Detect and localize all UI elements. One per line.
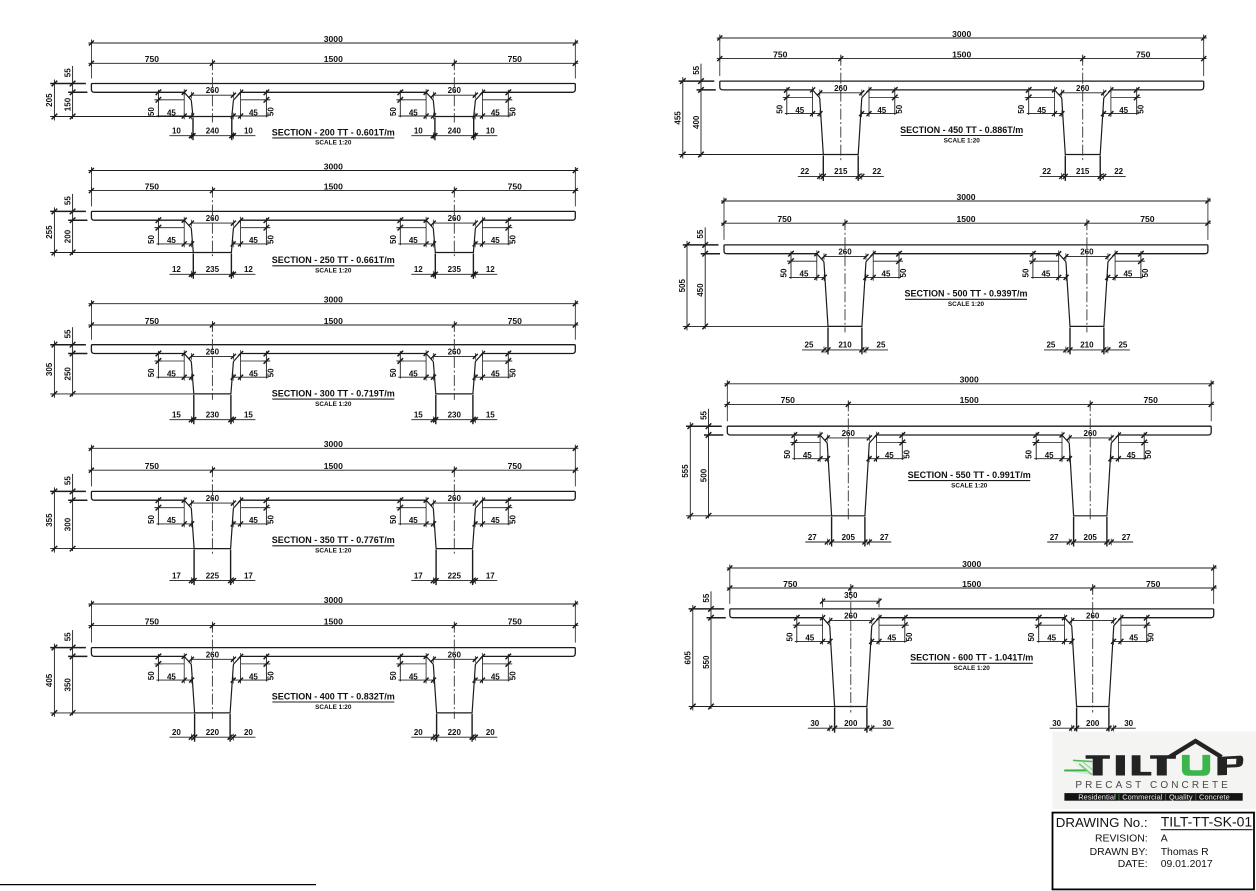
dimension 50 haunch depth (left of left stem, section 600) <box>796 615 798 643</box>
svg-text:750: 750 <box>508 54 523 64</box>
section 200 TT <box>45 34 578 147</box>
dimension 750/1500/750 (section 400) <box>88 625 578 627</box>
svg-text:20: 20 <box>172 728 181 737</box>
svg-text:55: 55 <box>63 196 72 205</box>
svg-text:45: 45 <box>805 634 814 643</box>
dimension 300 stem depth (section 350) <box>70 546 76 552</box>
svg-text:3000: 3000 <box>324 161 343 171</box>
svg-text:50: 50 <box>147 671 156 680</box>
section 250 TT right stem <box>426 220 482 252</box>
dimension 550 stem depth (section 600) <box>708 704 714 710</box>
dimension 3000 (section 250) <box>88 170 578 172</box>
svg-text:20: 20 <box>414 728 423 737</box>
dimension 45 haunch width (right of left stem, section 500) <box>866 276 901 278</box>
svg-text:12: 12 <box>414 265 423 274</box>
section 500 TT title underline <box>905 298 1027 300</box>
svg-text:50: 50 <box>1021 268 1030 277</box>
dimension 50 haunch depth (left of right stem, section 450) <box>1028 87 1030 115</box>
svg-text:45: 45 <box>409 516 418 525</box>
svg-text:260: 260 <box>206 650 220 659</box>
dimension 55 flange thickness (section 450) <box>700 64 702 157</box>
extension line stem bottom to left dims (section 450) <box>679 154 824 156</box>
svg-text:45: 45 <box>409 108 418 117</box>
dimension 45 haunch width (left of right stem, section 250) <box>398 243 433 245</box>
title block border <box>1053 813 1255 890</box>
svg-text:260: 260 <box>1084 429 1098 438</box>
dimension 150 stem depth (section 200) <box>70 114 76 120</box>
extension line flange top (section 500) <box>683 244 719 246</box>
svg-text:50: 50 <box>780 268 789 277</box>
extension line flange top (section 400) <box>50 647 86 649</box>
drawing number underline <box>1161 829 1253 831</box>
svg-text:260: 260 <box>834 84 848 93</box>
dimension 45 haunch width (left of right stem, section 450) <box>1027 113 1062 115</box>
svg-text:3000: 3000 <box>324 595 343 605</box>
svg-text:45: 45 <box>800 270 809 279</box>
svg-text:22: 22 <box>800 167 809 176</box>
dimension 350 chamfer top width (left stem, section 600) <box>823 600 879 602</box>
dimension 260 stem top width (right stem, section 550) <box>1069 437 1111 439</box>
section 200 TT flange outline <box>91 84 575 93</box>
svg-text:45: 45 <box>795 106 804 115</box>
svg-text:25: 25 <box>1118 341 1127 350</box>
dimension 50 haunch depth (right of left stem, section 500) <box>898 251 900 279</box>
svg-text:260: 260 <box>448 86 462 95</box>
svg-text:50: 50 <box>902 449 911 458</box>
section 500 TT right stem <box>1059 254 1115 327</box>
svg-text:50: 50 <box>508 515 517 524</box>
dimension 305 total depth (section 300) <box>53 341 55 398</box>
dimension 50 haunch depth (left of right stem, section 350) <box>399 498 401 526</box>
svg-text:50: 50 <box>1025 449 1034 458</box>
section 400 TT right stem <box>426 656 482 713</box>
section 250 TT right stem centerline <box>453 187 455 259</box>
section 600 TT flange outline <box>730 609 1214 618</box>
section 300 TT right stem <box>426 354 482 394</box>
dimension 45 haunch width (left of right stem, section 550) <box>1034 458 1069 460</box>
svg-text:TILT-TT-SK-01: TILT-TT-SK-01 <box>1161 814 1253 830</box>
svg-text:45: 45 <box>409 672 418 681</box>
extension line flange bottom (section 500) <box>701 253 720 255</box>
svg-text:27: 27 <box>1122 533 1131 542</box>
svg-text:450: 450 <box>696 283 705 297</box>
svg-text:215: 215 <box>834 167 848 176</box>
dimension 260 stem top width (right stem, section 200) <box>433 94 475 96</box>
section 200 TT title underline <box>272 137 394 139</box>
svg-text:45: 45 <box>1119 106 1128 115</box>
extension line flange bottom (section 550) <box>704 434 723 436</box>
svg-text:50: 50 <box>1027 632 1036 641</box>
svg-text:750: 750 <box>1136 49 1151 59</box>
svg-text:1500: 1500 <box>324 54 343 64</box>
extension line flange bottom (section 450) <box>697 89 716 91</box>
dimension 50 haunch depth (left of left stem, section 450) <box>786 87 788 115</box>
svg-text:230: 230 <box>206 411 220 420</box>
svg-text:30: 30 <box>810 719 819 728</box>
svg-text:45: 45 <box>1041 270 1050 279</box>
section 250 TT flange outline <box>91 211 575 220</box>
dimension 20 220 20 bottom width (right stem, section 400) <box>411 736 497 738</box>
svg-text:405: 405 <box>45 673 54 687</box>
section 550 TT left stem centerline <box>847 400 849 521</box>
dimension 45 haunch width (left of right stem, section 200) <box>398 115 433 117</box>
dimension 260 stem top width (left stem, section 550) <box>827 437 869 439</box>
section 300 TT left stem <box>184 354 240 394</box>
logo letter P <box>1217 756 1243 776</box>
svg-text:17: 17 <box>486 571 495 580</box>
dimension 260 stem top width (left stem, section 200) <box>191 94 233 96</box>
svg-text:10: 10 <box>172 127 181 136</box>
section 250 TT left stem centerline <box>211 187 213 259</box>
section 550 TT right stem <box>1062 435 1118 516</box>
dimension 22 215 22 bottom width (right stem, section 450) <box>1040 175 1126 177</box>
svg-text:235: 235 <box>448 265 462 274</box>
dimension 260 stem top width (right stem, section 600) <box>1072 620 1114 622</box>
section 250 TT title underline <box>272 265 394 267</box>
svg-text:22: 22 <box>1042 167 1051 176</box>
svg-text:260: 260 <box>1076 84 1090 93</box>
svg-text:A: A <box>1161 833 1168 844</box>
section 400 TT right stem centerline <box>453 622 455 719</box>
svg-text:230: 230 <box>448 411 462 420</box>
section 450 TT <box>674 29 1207 181</box>
svg-text:50: 50 <box>1137 104 1146 113</box>
dimension 50 haunch depth (right of left stem, section 450) <box>894 87 896 115</box>
dimension 750/1500/750 (section 550) <box>724 403 1214 405</box>
section 450 TT left stem <box>813 90 869 155</box>
logo black banner <box>1064 793 1242 801</box>
svg-text:50: 50 <box>775 104 784 113</box>
svg-text:22: 22 <box>872 167 881 176</box>
svg-text:260: 260 <box>844 612 858 621</box>
dimension 260 stem top width (right stem, section 250) <box>433 222 475 224</box>
svg-text:SECTION - 350 TT - 0.776T/m: SECTION - 350 TT - 0.776T/m <box>272 535 395 545</box>
dimension 50 haunch depth (right of right stem, section 400) <box>507 654 509 682</box>
section 500 TT <box>678 192 1211 355</box>
svg-text:27: 27 <box>1050 533 1059 542</box>
dimension 3000 (section 600) <box>727 567 1217 569</box>
svg-text:505: 505 <box>678 279 687 293</box>
svg-text:10: 10 <box>486 127 495 136</box>
svg-text:50: 50 <box>389 368 398 377</box>
svg-text:Thomas R: Thomas R <box>1161 847 1209 858</box>
dimension 260 stem top width (left stem, section 500) <box>824 256 866 258</box>
dimension 20 220 20 bottom width (left stem, section 400) <box>169 736 255 738</box>
dimension 50 haunch depth (right of left stem, section 550) <box>901 433 903 461</box>
svg-text:1500: 1500 <box>956 214 975 224</box>
dimension 45 haunch width (right of left stem, section 350) <box>233 523 268 525</box>
svg-text:45: 45 <box>249 108 258 117</box>
svg-text:55: 55 <box>63 476 72 485</box>
dimension 260 stem top width (left stem, section 250) <box>191 222 233 224</box>
dimension 45 haunch width (right of left stem, section 300) <box>233 376 268 378</box>
svg-text:15: 15 <box>244 411 253 420</box>
dimension 505 total depth (section 500) <box>686 241 688 331</box>
svg-text:50: 50 <box>266 515 275 524</box>
section 350 TT left stem <box>184 500 240 548</box>
svg-text:750: 750 <box>145 316 160 326</box>
dimension 50 haunch depth (right of right stem, section 250) <box>507 218 509 246</box>
svg-text:50: 50 <box>389 515 398 524</box>
dimension 50 haunch depth (right of left stem, section 250) <box>265 218 267 246</box>
svg-text:455: 455 <box>674 111 683 125</box>
dimension 45 haunch width (left of left stem, section 400) <box>156 679 191 681</box>
dimension 3000 (section 450) <box>717 37 1207 39</box>
svg-text:260: 260 <box>448 214 462 223</box>
svg-text:1500: 1500 <box>324 616 343 626</box>
svg-text:260: 260 <box>206 214 220 223</box>
dimension 250 stem depth (section 300) <box>70 391 76 397</box>
svg-text:50: 50 <box>508 671 517 680</box>
section 600 TT title underline <box>911 662 1033 664</box>
dimension 50 haunch depth (left of right stem, section 600) <box>1038 615 1040 643</box>
section 300 TT right stem centerline <box>453 321 455 400</box>
svg-text:REVISION:: REVISION: <box>1095 833 1148 844</box>
dimension 50 haunch depth (right of right stem, section 450) <box>1136 87 1138 115</box>
svg-text:3000: 3000 <box>962 559 981 569</box>
svg-text:55: 55 <box>696 229 705 238</box>
svg-text:750: 750 <box>145 461 160 471</box>
dimension 260 stem top width (right stem, section 450) <box>1062 92 1104 94</box>
svg-text:1500: 1500 <box>962 579 981 589</box>
dimension 12 235 12 bottom width (right stem, section 250) <box>411 273 497 275</box>
dimension 3000 (section 400) <box>88 603 578 605</box>
dimension 260 stem top width (right stem, section 500) <box>1066 256 1108 258</box>
extension line stem bottom to left dims (section 400) <box>50 712 194 714</box>
svg-text:1500: 1500 <box>952 49 971 59</box>
svg-text:50: 50 <box>899 268 908 277</box>
dimension 50 haunch depth (left of right stem, section 200) <box>399 90 401 118</box>
svg-text:210: 210 <box>1080 341 1094 350</box>
svg-text:300: 300 <box>63 517 72 531</box>
svg-text:750: 750 <box>773 49 788 59</box>
dimension 3000 (section 350) <box>88 447 578 449</box>
svg-text:350: 350 <box>844 591 858 600</box>
dimension 45 haunch width (left of left stem, section 350) <box>156 523 191 525</box>
svg-text:30: 30 <box>882 719 891 728</box>
dimension 55 flange thickness (section 250) <box>72 194 74 255</box>
svg-text:55: 55 <box>63 329 72 338</box>
svg-text:45: 45 <box>167 108 176 117</box>
svg-text:260: 260 <box>206 494 220 503</box>
svg-text:750: 750 <box>783 579 798 589</box>
extension line flange bottom (section 300) <box>68 353 87 355</box>
svg-text:22: 22 <box>1114 167 1123 176</box>
section 200 TT right stem centerline <box>453 59 455 122</box>
dimension 205 total depth (section 200) <box>53 80 55 121</box>
svg-text:500: 500 <box>699 468 708 482</box>
extension line flange top (section 350) <box>50 490 86 492</box>
dimension 27 205 27 bottom width (right stem, section 550) <box>1047 541 1133 543</box>
svg-text:50: 50 <box>147 515 156 524</box>
svg-text:50: 50 <box>266 368 275 377</box>
svg-text:260: 260 <box>448 650 462 659</box>
svg-text:27: 27 <box>880 533 889 542</box>
dimension 55 flange thickness (section 300) <box>72 327 74 396</box>
svg-text:10: 10 <box>414 127 423 136</box>
extension line flange bottom (section 200) <box>68 91 87 93</box>
svg-text:3000: 3000 <box>956 192 975 202</box>
dimension 45 haunch width (left of right stem, section 300) <box>398 376 433 378</box>
dimension 50 haunch depth (left of left stem, section 300) <box>157 351 159 379</box>
svg-text:45: 45 <box>885 451 894 460</box>
extension line stem bottom to left dims (section 250) <box>50 252 193 254</box>
section 350 TT <box>45 439 578 585</box>
svg-text:20: 20 <box>486 728 495 737</box>
dimension 50 haunch depth (left of left stem, section 550) <box>793 433 795 461</box>
svg-text:45: 45 <box>491 370 500 379</box>
svg-text:45: 45 <box>167 370 176 379</box>
section 500 TT right stem centerline <box>1086 219 1088 332</box>
section 350 TT right stem <box>426 500 482 548</box>
section 600 TT right stem <box>1065 618 1121 707</box>
svg-text:55: 55 <box>63 632 72 641</box>
extension line stem bottom to left dims (section 350) <box>50 548 194 550</box>
dimension 45 haunch width (right of right stem, section 550) <box>1111 458 1146 460</box>
svg-text:45: 45 <box>491 516 500 525</box>
svg-text:750: 750 <box>1144 395 1159 405</box>
svg-text:260: 260 <box>206 347 220 356</box>
logo banner text <box>1078 792 1230 801</box>
svg-text:750: 750 <box>508 616 523 626</box>
svg-text:55: 55 <box>699 410 708 419</box>
svg-text:15: 15 <box>486 411 495 420</box>
dimension 50 haunch depth (right of left stem, section 350) <box>265 498 267 526</box>
svg-text:SECTION - 200 TT - 0.601T/m: SECTION - 200 TT - 0.601T/m <box>272 127 395 137</box>
dimension 45 haunch width (left of right stem, section 350) <box>398 523 433 525</box>
dimension 45 haunch width (right of left stem, section 450) <box>862 113 897 115</box>
svg-text:45: 45 <box>1045 451 1054 460</box>
dimension 750/1500/750 (section 450) <box>717 58 1207 60</box>
svg-text:45: 45 <box>491 672 500 681</box>
extension line flange bottom (section 600) <box>707 617 726 619</box>
section 300 TT <box>45 295 578 425</box>
dimension 260 stem top width (left stem, section 450) <box>820 92 862 94</box>
svg-text:50: 50 <box>508 368 517 377</box>
dimension 50 haunch depth (left of right stem, section 500) <box>1032 251 1034 279</box>
dimension 25 210 25 bottom width (right stem, section 500) <box>1044 349 1130 351</box>
svg-text:400: 400 <box>692 115 701 129</box>
dimension 45 haunch width (right of right stem, section 350) <box>475 523 510 525</box>
extension line stem bottom to left dims (section 550) <box>686 515 832 517</box>
svg-text:27: 27 <box>808 533 817 542</box>
extension line stem bottom to left dims (section 600) <box>689 706 835 708</box>
dimension 55 flange thickness (section 400) <box>72 630 74 715</box>
dimension 3000 (section 200) <box>88 42 578 44</box>
dimension 45 haunch width (left of left stem, section 300) <box>156 376 191 378</box>
svg-text:09.01.2017: 09.01.2017 <box>1161 859 1213 870</box>
dimension 255 total depth (section 250) <box>53 207 55 256</box>
svg-text:1500: 1500 <box>324 461 343 471</box>
svg-text:45: 45 <box>409 370 418 379</box>
dimension 50 haunch depth (right of left stem, section 300) <box>265 351 267 379</box>
dimension 30 200 30 bottom width (left stem, section 600) <box>808 727 894 729</box>
svg-text:50: 50 <box>389 107 398 116</box>
extension line flange top (section 200) <box>50 83 86 85</box>
dimension 405 total depth (section 400) <box>53 644 55 717</box>
svg-text:3000: 3000 <box>324 439 343 449</box>
svg-text:17: 17 <box>172 571 181 580</box>
svg-text:205: 205 <box>1084 533 1098 542</box>
svg-text:20: 20 <box>244 728 253 737</box>
svg-text:DRAWING No.:: DRAWING No.: <box>1056 815 1148 830</box>
svg-text:250: 250 <box>63 367 72 381</box>
svg-text:SCALE 1:20: SCALE 1:20 <box>315 401 352 408</box>
section 550 TT right stem centerline <box>1089 400 1091 521</box>
svg-text:SECTION - 450 TT - 0.886T/m: SECTION - 450 TT - 0.886T/m <box>900 125 1023 135</box>
dimension 50 haunch depth (left of right stem, section 250) <box>399 218 401 246</box>
section 400 TT flange outline <box>91 648 575 657</box>
extension line flange top (section 550) <box>686 425 722 427</box>
svg-text:30: 30 <box>1052 719 1061 728</box>
svg-text:220: 220 <box>448 728 462 737</box>
svg-text:45: 45 <box>491 236 500 245</box>
svg-text:605: 605 <box>684 651 693 665</box>
dimension 50 haunch depth (left of right stem, section 300) <box>399 351 401 379</box>
svg-text:SECTION - 500 TT - 0.939T/m: SECTION - 500 TT - 0.939T/m <box>904 289 1027 299</box>
dimension 45 haunch width (right of right stem, section 250) <box>475 243 510 245</box>
dimension 50 haunch depth (left of left stem, section 250) <box>157 218 159 246</box>
svg-text:50: 50 <box>508 235 517 244</box>
svg-text:50: 50 <box>147 235 156 244</box>
svg-text:555: 555 <box>681 464 690 478</box>
svg-text:50: 50 <box>389 235 398 244</box>
svg-text:50: 50 <box>1144 449 1153 458</box>
svg-text:45: 45 <box>167 236 176 245</box>
dimension 45 haunch width (right of left stem, section 400) <box>233 679 268 681</box>
svg-text:12: 12 <box>172 265 181 274</box>
svg-text:45: 45 <box>882 270 891 279</box>
svg-text:45: 45 <box>249 672 258 681</box>
svg-text:750: 750 <box>508 181 523 191</box>
page frame fragment bottom left <box>0 884 316 886</box>
dimension 50 haunch depth (left of left stem, section 500) <box>790 251 792 279</box>
svg-text:50: 50 <box>1141 268 1150 277</box>
svg-text:220: 220 <box>206 728 220 737</box>
svg-text:15: 15 <box>414 411 423 420</box>
dimension 50 haunch depth (left of left stem, section 200) <box>157 90 159 118</box>
svg-text:10: 10 <box>244 127 253 136</box>
dimension 17 225 17 bottom width (right stem, section 350) <box>411 580 497 582</box>
section 350 TT right stem centerline <box>453 466 455 554</box>
dimension 355 total depth (section 350) <box>53 487 55 552</box>
svg-text:SCALE 1:20: SCALE 1:20 <box>944 137 981 144</box>
dimension 50 haunch depth (right of right stem, section 550) <box>1143 433 1145 461</box>
section 450 TT title underline <box>901 135 1023 137</box>
svg-text:50: 50 <box>389 671 398 680</box>
svg-text:45: 45 <box>249 370 258 379</box>
svg-text:1500: 1500 <box>960 395 979 405</box>
svg-text:55: 55 <box>63 68 72 77</box>
svg-text:PRECAST CONCRETE: PRECAST CONCRETE <box>1075 780 1231 791</box>
extension line stem bottom to left dims (section 500) <box>683 325 828 327</box>
dimension 15 230 15 bottom width (right stem, section 300) <box>411 419 497 421</box>
dimension 45 haunch width (left of left stem, section 600) <box>795 640 830 642</box>
dimension 25 210 25 bottom width (left stem, section 500) <box>802 349 888 351</box>
dimension 45 haunch width (left of left stem, section 550) <box>792 458 827 460</box>
extension line flange bottom (section 350) <box>68 499 87 501</box>
svg-text:3000: 3000 <box>324 295 343 305</box>
svg-text:150: 150 <box>63 97 72 111</box>
dimension 50 haunch depth (right of right stem, section 600) <box>1146 615 1148 643</box>
svg-text:750: 750 <box>145 616 160 626</box>
dimension 45 haunch width (right of right stem, section 500) <box>1108 276 1143 278</box>
svg-text:50: 50 <box>1147 632 1156 641</box>
svg-text:DATE:: DATE: <box>1118 859 1148 870</box>
dimension 10 240 10 bottom width (left stem, section 200) <box>169 135 255 137</box>
section 450 TT right stem centerline <box>1082 55 1084 161</box>
section 450 TT right stem <box>1055 90 1111 155</box>
